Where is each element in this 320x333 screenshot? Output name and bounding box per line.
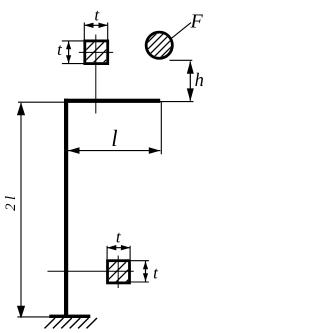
dimension t top-square height line [68, 41, 70, 63]
weight circle F [146, 32, 172, 58]
dimension l arrowhead right [149, 147, 161, 154]
wire beam horizontal member [64, 99, 160, 103]
dimension l arrowhead left [68, 147, 80, 154]
dimension 2l extension line bottom [17, 316, 49, 318]
svg-text:h: h [195, 71, 204, 91]
dimension h arrowhead down [187, 88, 194, 101]
cross-section square bottom hatching [106, 258, 134, 292]
leader line F [171, 23, 191, 39]
dimension t top-square width line [84, 24, 107, 26]
dimension t bottom-square width arrowheads [107, 245, 117, 250]
ground [49, 315, 90, 318]
dimension h reference line bottom [160, 101, 194, 103]
dimension t bottom-square height line [145, 261, 147, 282]
dimension 2l arrowhead down [17, 306, 25, 319]
centerline vertical bottom section [117, 256, 119, 289]
dimension l line [68, 150, 160, 152]
dimension h reference line top [170, 59, 193, 61]
dimension 2l line [20, 103, 22, 318]
svg-text:F: F [190, 11, 204, 33]
dimension 2l arrowhead up [17, 102, 25, 115]
dimension h arrowhead up [187, 61, 194, 74]
dimension t bottom-square height arrowheads [143, 261, 148, 269]
dimension t top-square width extension lines [83, 23, 85, 40]
dimension t top-square height arrowheads [66, 41, 71, 49]
dimension t top-square height extension lines [62, 40, 84, 42]
centerline vertical top section [95, 35, 97, 114]
cross-section square top hatching [84, 38, 112, 72]
dimension t bottom-square height extension lines [131, 260, 149, 262]
wire column vertical member [64, 99, 68, 317]
dimension h line [189, 62, 191, 101]
svg-text:l: l [111, 126, 117, 151]
dimension t bottom-square width extension lines [106, 246, 108, 259]
svg-text:2l: 2l [3, 192, 19, 210]
svg-text:t: t [116, 227, 122, 246]
svg-text:t: t [153, 264, 159, 283]
dimension t bottom-square width line [107, 247, 130, 249]
centerline horizontal top section [79, 51, 113, 53]
dimension 2l extension line top [18, 101, 64, 103]
svg-text:t: t [94, 6, 100, 25]
ground hatching [45, 318, 98, 328]
centerline horizontal bottom section [48, 270, 134, 272]
cross-section square top [85, 41, 108, 64]
weight circle hatching [143, 27, 179, 63]
cross-section square bottom [108, 261, 130, 283]
dimension t top-square width arrowheads [84, 23, 94, 28]
svg-text:t: t [57, 40, 63, 59]
dimension l extension line right [160, 102, 162, 155]
